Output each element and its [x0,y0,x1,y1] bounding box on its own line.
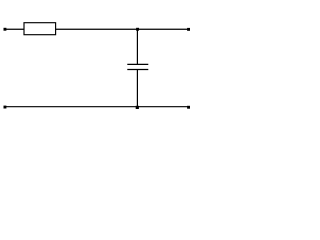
resistor (box symbol) [24,23,56,35]
wire (capacitor bottom plate down to bottom rail) [136,70,138,107]
wire (resistor right lead to top-right terminal, through junction) [56,28,189,30]
terminal (bottom-left pin) [4,106,7,109]
terminal (bottom-right pin) [187,106,190,109]
wire (junction down to capacitor top plate) [136,29,138,64]
terminal (top-right output pin) [187,28,190,31]
node (top junction of capacitor branch) [136,28,139,31]
capacitor (top plate) [127,63,148,65]
capacitor (bottom plate) [127,69,148,71]
terminal (top-left input pin) [4,28,7,31]
wire (input terminal to resistor left lead) [5,28,24,30]
wire (bottom rail, left terminal to right terminal) [5,106,189,108]
node (bottom junction of capacitor branch) [136,106,139,109]
